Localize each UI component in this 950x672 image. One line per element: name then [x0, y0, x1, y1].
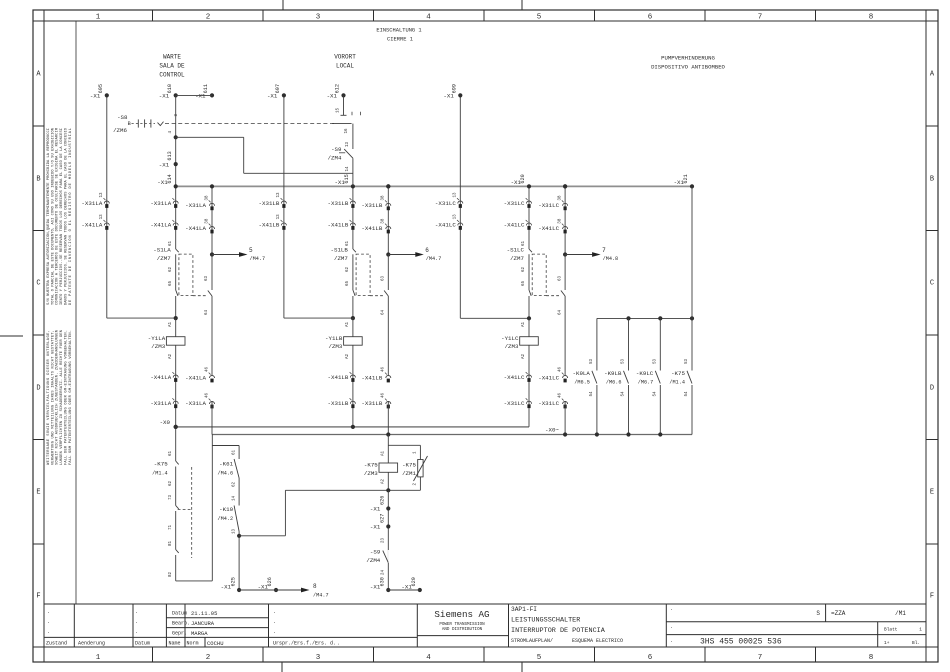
svg-text:82: 82: [169, 571, 173, 577]
svg-text:Aenderung: Aenderung: [78, 641, 105, 647]
svg-text:Name: Name: [169, 641, 181, 647]
svg-text:621: 621: [683, 174, 689, 183]
svg-text:.: .: [135, 629, 138, 635]
svg-text:61: 61: [169, 450, 173, 456]
svg-text:-X31LC: -X31LC: [504, 400, 525, 407]
svg-text:-X31LC: -X31LC: [504, 200, 525, 207]
svg-text:626: 626: [267, 577, 273, 586]
svg-text:/M4.7: /M4.7: [426, 256, 442, 262]
svg-text:-K9LB: -K9LB: [604, 370, 622, 377]
svg-text:46: 46: [559, 366, 563, 372]
svg-text:-Y1LC: -Y1LC: [501, 335, 519, 342]
svg-text:38: 38: [559, 218, 563, 224]
svg-text:-X31LA: -X31LA: [185, 400, 206, 407]
svg-text:-X41LB: -X41LB: [259, 222, 280, 229]
svg-text:54: 54: [590, 391, 594, 397]
svg-text:/ZM3: /ZM3: [328, 343, 342, 350]
svg-text:-Y1LA: -Y1LA: [148, 335, 166, 342]
svg-text:65: 65: [346, 280, 350, 286]
svg-text:-X41LC: -X41LC: [504, 222, 525, 229]
svg-text:62: 62: [346, 266, 350, 272]
svg-text:-X31LC: -X31LC: [435, 200, 456, 207]
svg-text:-X41LB: -X41LB: [328, 374, 349, 381]
svg-text:-X31LB: -X31LB: [328, 400, 349, 407]
svg-text:46: 46: [559, 392, 563, 398]
svg-text:D: D: [930, 385, 934, 393]
svg-text:38: 38: [205, 195, 209, 201]
svg-text:46: 46: [382, 366, 386, 372]
svg-text:A1: A1: [382, 450, 386, 456]
svg-text:.: .: [135, 619, 138, 625]
svg-text:-X41LC: -X41LC: [538, 225, 559, 232]
svg-text:CIERRE 1: CIERRE 1: [387, 37, 413, 43]
svg-text:-K10: -K10: [219, 506, 233, 513]
svg-text:-S1LB: -S1LB: [330, 247, 348, 254]
svg-text:21.11.05: 21.11.05: [191, 610, 217, 617]
svg-text:-X31LA: -X31LA: [81, 200, 102, 207]
svg-text:B: B: [930, 176, 934, 184]
svg-text:-X31LB: -X31LB: [328, 200, 349, 207]
svg-text:DE PATENTE DE INVENCION O EL R: DE PATENTE DE INVENCION O EL REGISTRO DE…: [69, 128, 73, 305]
svg-text:LOCAL: LOCAL: [336, 63, 354, 70]
svg-text:2: 2: [206, 14, 211, 22]
svg-text:Blatt: Blatt: [884, 627, 898, 633]
svg-text:/ZM7: /ZM7: [334, 255, 348, 262]
svg-text:B: B: [128, 121, 131, 127]
svg-text:-X1: -X1: [370, 524, 381, 531]
svg-text:38: 38: [559, 195, 563, 201]
svg-text:/M6.5: /M6.5: [574, 380, 590, 386]
svg-text:53: 53: [685, 358, 689, 364]
svg-text:4: 4: [426, 14, 431, 22]
svg-text:.: .: [273, 609, 276, 615]
svg-text:81: 81: [169, 540, 173, 546]
svg-text:1: 1: [96, 14, 101, 22]
svg-text:-K61: -K61: [219, 461, 233, 468]
svg-text:-X1: -X1: [159, 161, 170, 168]
svg-text:14: 14: [232, 495, 236, 501]
svg-text:5: 5: [537, 654, 542, 662]
svg-text:Bl.: Bl.: [912, 640, 920, 646]
svg-text:B: B: [36, 176, 40, 184]
svg-text:.: .: [135, 609, 138, 615]
svg-text:7: 7: [758, 14, 763, 22]
svg-text:3AP1-FI: 3AP1-FI: [511, 606, 537, 613]
svg-text:64: 64: [382, 309, 386, 315]
svg-text:63: 63: [382, 275, 386, 281]
svg-text:Urspr./Ers.f./Ers. d.: Urspr./Ers.f./Ers. d.: [273, 641, 336, 647]
svg-text:61: 61: [232, 449, 236, 455]
svg-text:POWER TRANSMISSION: POWER TRANSMISSION: [439, 623, 485, 627]
svg-text:Datum: Datum: [172, 611, 187, 617]
svg-text:13: 13: [346, 141, 350, 147]
svg-text:62: 62: [522, 266, 526, 272]
svg-text:-K75: -K75: [364, 462, 378, 469]
svg-text:AND DISTRIBUTION: AND DISTRIBUTION: [442, 628, 483, 632]
svg-text:E: E: [36, 489, 40, 497]
svg-text:-S9: -S9: [370, 549, 381, 556]
svg-text:1+: 1+: [884, 640, 890, 646]
svg-text:62: 62: [169, 480, 173, 486]
svg-text:629: 629: [411, 577, 417, 586]
svg-text:61: 61: [169, 240, 173, 246]
svg-text:MARGA: MARGA: [191, 630, 208, 637]
svg-text:38: 38: [382, 218, 386, 224]
svg-text:63: 63: [558, 275, 562, 281]
svg-text:6: 6: [648, 14, 653, 22]
svg-text:53: 53: [622, 358, 626, 364]
svg-text:-X31LC: -X31LC: [538, 202, 559, 209]
svg-text:A2: A2: [382, 478, 386, 484]
svg-text:-X31LC: -X31LC: [538, 400, 559, 407]
svg-text:/M4.7: /M4.7: [250, 256, 266, 262]
svg-text:1: 1: [96, 654, 101, 662]
svg-text:/ZM4: /ZM4: [328, 155, 342, 162]
svg-text:=ZZA: =ZZA: [831, 610, 846, 617]
svg-text:13: 13: [100, 214, 104, 220]
svg-text:8: 8: [869, 14, 874, 22]
svg-text:S/N NUESTRA EXPRESA AUTORIZACI: S/N NUESTRA EXPRESA AUTORIZACION,QUEDA T…: [46, 128, 51, 305]
svg-text:.: .: [47, 619, 50, 625]
svg-text:F: F: [930, 593, 934, 601]
svg-text:-K75: -K75: [402, 462, 416, 469]
svg-text:1: 1: [919, 627, 922, 633]
svg-text:65: 65: [169, 280, 173, 286]
svg-text:13: 13: [277, 214, 281, 220]
svg-text:/M4.6: /M4.6: [218, 471, 234, 477]
svg-text:-X41LC: -X41LC: [538, 374, 559, 381]
svg-text:C: C: [930, 280, 934, 288]
svg-text:13: 13: [454, 192, 458, 198]
svg-text:695: 695: [98, 84, 104, 93]
svg-text:-X41LC: -X41LC: [504, 374, 525, 381]
svg-text:627: 627: [379, 514, 385, 523]
svg-text:EINSCHALTUNG 1: EINSCHALTUNG 1: [376, 28, 421, 34]
svg-text:WARTE: WARTE: [163, 54, 181, 61]
svg-text:54: 54: [654, 391, 658, 397]
svg-text:/ZM3: /ZM3: [151, 343, 165, 350]
svg-text:INTERRUPTOR DE POTENCIA: INTERRUPTOR DE POTENCIA: [511, 627, 606, 635]
svg-text:-X41LB: -X41LB: [361, 225, 382, 232]
svg-text:699: 699: [451, 84, 457, 93]
svg-text:612: 612: [335, 84, 341, 93]
svg-text:-X41LC: -X41LC: [435, 222, 456, 229]
svg-text:.: .: [273, 629, 276, 635]
svg-text:-X41LA: -X41LA: [185, 374, 206, 381]
svg-text:-X41LB: -X41LB: [361, 374, 382, 381]
svg-text:S: S: [816, 610, 820, 617]
svg-text:620: 620: [520, 174, 526, 183]
svg-text:14: 14: [346, 166, 350, 172]
svg-text:61: 61: [346, 240, 350, 246]
svg-text:3: 3: [316, 14, 321, 22]
svg-text:3: 3: [316, 654, 321, 662]
svg-text:D: D: [36, 385, 40, 393]
svg-text:Gepr.: Gepr.: [172, 631, 187, 637]
svg-text:-K75: -K75: [671, 370, 685, 377]
svg-text:-X41LA: -X41LA: [185, 225, 206, 232]
svg-text:-X41LA: -X41LA: [150, 222, 171, 229]
svg-text:-X31LA: -X31LA: [150, 200, 171, 207]
svg-text:64: 64: [205, 309, 209, 315]
svg-text:/ZM3: /ZM3: [364, 470, 378, 477]
svg-text:PUMPVERHINDERUNG: PUMPVERHINDERUNG: [661, 55, 715, 62]
svg-text:697: 697: [275, 84, 281, 93]
svg-text:-S1LA: -S1LA: [153, 247, 171, 254]
svg-text:TOTAL O PARCIAL DE ESTE DOCUME: TOTAL O PARCIAL DE ESTE DOCUMENTO, ASI C…: [50, 128, 55, 305]
svg-text:.: .: [47, 629, 50, 635]
svg-text:-S8: -S8: [117, 114, 128, 121]
svg-text:/M6.6: /M6.6: [606, 380, 622, 386]
svg-text:STROMLAUFPLAN/: STROMLAUFPLAN/: [511, 638, 553, 644]
svg-text:A2: A2: [522, 353, 526, 359]
svg-text:A2: A2: [346, 353, 350, 359]
svg-text:61: 61: [522, 240, 526, 246]
svg-text:/M1: /M1: [895, 610, 906, 617]
svg-text:FALL GBM PATENTERTEILUNG ODER: FALL GBM PATENTERTEILUNG ODER GM-EINTRAG…: [69, 330, 73, 465]
svg-text:53: 53: [590, 358, 594, 364]
svg-text:38: 38: [205, 218, 209, 224]
svg-text:C: C: [36, 280, 40, 288]
svg-text:625: 625: [230, 577, 236, 586]
svg-text:2: 2: [206, 654, 211, 662]
svg-text:.: .: [273, 619, 276, 625]
svg-text:LEISTUNGSSCHALTER: LEISTUNGSSCHALTER: [511, 617, 580, 625]
svg-text:8: 8: [313, 583, 317, 590]
svg-text:/ZM3: /ZM3: [505, 343, 519, 350]
svg-text:13: 13: [232, 528, 236, 534]
svg-text:/M4.8: /M4.8: [603, 256, 619, 262]
svg-text:/M6.7: /M6.7: [638, 380, 654, 386]
svg-text:SALA DE: SALA DE: [159, 63, 185, 70]
svg-text:A1: A1: [346, 321, 350, 327]
svg-text:-K9LC: -K9LC: [636, 370, 654, 377]
svg-text:F: F: [36, 593, 40, 601]
svg-text:A1: A1: [169, 321, 173, 327]
svg-text:23: 23: [382, 537, 386, 543]
svg-text:E: E: [930, 489, 934, 497]
svg-text:71: 71: [169, 524, 173, 530]
svg-text:Norm: Norm: [187, 641, 199, 647]
svg-text:-X1: -X1: [370, 506, 381, 513]
svg-text:5: 5: [537, 14, 542, 22]
svg-text:626: 626: [379, 496, 385, 505]
svg-text:.: .: [670, 624, 673, 630]
svg-text:7: 7: [758, 654, 763, 662]
svg-text:-S1LC: -S1LC: [507, 247, 525, 254]
svg-text:.: .: [47, 609, 50, 615]
svg-text:6: 6: [648, 654, 653, 662]
svg-text:JANCURA: JANCURA: [191, 620, 215, 627]
svg-text:13: 13: [277, 192, 281, 198]
svg-text:/ZM1: /ZM1: [402, 470, 416, 477]
svg-text:-X41LB: -X41LB: [328, 222, 349, 229]
svg-text:A1: A1: [522, 321, 526, 327]
svg-text:-X31LA: -X31LA: [185, 202, 206, 209]
svg-text:64: 64: [558, 309, 562, 315]
svg-text:54: 54: [622, 391, 626, 397]
svg-text:615: 615: [344, 174, 350, 183]
svg-text:COCHU: COCHU: [207, 640, 224, 647]
svg-text:24: 24: [382, 569, 386, 575]
svg-text:/ZM6: /ZM6: [113, 127, 127, 134]
svg-text:46: 46: [205, 392, 209, 398]
svg-text:8: 8: [869, 654, 874, 662]
svg-text:15: 15: [337, 107, 341, 113]
svg-text:46: 46: [382, 392, 386, 398]
svg-text:-X0~: -X0~: [545, 427, 559, 434]
svg-text:13: 13: [454, 214, 458, 220]
svg-text:/ZM7: /ZM7: [157, 255, 171, 262]
svg-text:6: 6: [425, 247, 429, 254]
svg-text:4: 4: [426, 654, 431, 662]
svg-text:46: 46: [205, 366, 209, 372]
svg-text:-X31LB: -X31LB: [361, 400, 382, 407]
svg-text:-Y1LB: -Y1LB: [325, 335, 343, 342]
svg-text:38: 38: [382, 195, 386, 201]
svg-text:-S9: -S9: [331, 146, 342, 153]
svg-text:-X41LA: -X41LA: [150, 374, 171, 381]
svg-text:5: 5: [249, 247, 253, 254]
svg-text:A2: A2: [169, 353, 173, 359]
svg-text:DISPOSITIVO ANTIBOMBEO: DISPOSITIVO ANTIBOMBEO: [651, 64, 725, 71]
svg-text:630: 630: [379, 577, 385, 586]
svg-text:/M1.4: /M1.4: [152, 471, 168, 477]
svg-text:614: 614: [167, 174, 173, 183]
svg-text:.: .: [670, 638, 673, 644]
svg-text:3HS 455 00025 536: 3HS 455 00025 536: [700, 638, 782, 647]
svg-text:/M1.4: /M1.4: [669, 380, 685, 386]
svg-text:-K75: -K75: [154, 461, 168, 468]
svg-text:54: 54: [685, 391, 689, 397]
svg-text:7: 7: [602, 247, 606, 254]
svg-text:ESQUEMA ELECTRICO: ESQUEMA ELECTRICO: [572, 638, 623, 644]
svg-text:/ZM7: /ZM7: [510, 255, 524, 262]
svg-text:/M4.2: /M4.2: [218, 516, 234, 522]
svg-text:613: 613: [167, 151, 173, 160]
svg-text:-X31LB: -X31LB: [361, 202, 382, 209]
svg-text:.: .: [337, 641, 340, 647]
svg-text:-X31LA: -X31LA: [150, 400, 171, 407]
svg-text:53: 53: [654, 358, 658, 364]
svg-text:Bearb.: Bearb.: [172, 621, 190, 627]
svg-text:-X31LB: -X31LB: [259, 200, 280, 207]
svg-text:Siemens AG: Siemens AG: [434, 609, 489, 620]
svg-text:Datum: Datum: [135, 641, 150, 647]
svg-text:-K9LA: -K9LA: [572, 370, 590, 377]
svg-text:63: 63: [205, 275, 209, 281]
svg-text:62: 62: [169, 266, 173, 272]
svg-text:62: 62: [232, 481, 236, 487]
svg-text:-X41LA: -X41LA: [81, 222, 102, 229]
svg-text:611: 611: [203, 84, 209, 93]
svg-text:VORORT: VORORT: [334, 54, 356, 61]
svg-text:Zustand: Zustand: [46, 641, 67, 647]
svg-text:610: 610: [167, 84, 173, 93]
svg-text:CONTROL: CONTROL: [159, 72, 185, 79]
svg-text:73: 73: [169, 494, 173, 500]
svg-text:/M4.7: /M4.7: [313, 593, 329, 599]
svg-text:-X0: -X0: [160, 419, 171, 426]
svg-text:.: .: [670, 606, 673, 612]
svg-text:16: 16: [345, 128, 349, 134]
svg-text:65: 65: [522, 280, 526, 286]
svg-text:13: 13: [100, 192, 104, 198]
svg-text:/ZM4: /ZM4: [366, 557, 380, 564]
